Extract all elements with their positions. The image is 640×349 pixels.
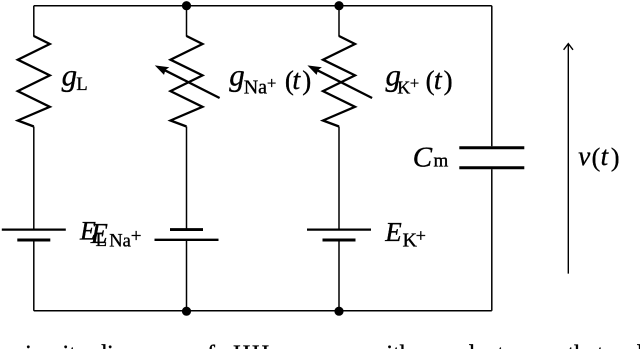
label gK+(t) [386,58,453,98]
wire left branch upper [33,6,35,37]
svg-text:HH: HH [233,342,271,349]
wire branch3 middle [338,127,340,230]
wire right branch lower [491,169,493,310]
svg-text:t: t [434,65,443,96]
arrow through gK [307,65,372,98]
svg-text:E: E [90,219,108,250]
node top junction branch3 [334,1,343,10]
wire branch3 upper [338,6,340,37]
svg-text:+: + [410,74,419,93]
svg-text:E: E [384,217,402,247]
svg-text:): ) [611,143,620,172]
svg-text:m: m [434,151,449,172]
capacitor Cm top plate [459,146,524,149]
wire right branch upper [491,6,493,147]
wire branch2 upper [186,6,188,37]
node bottom junction branch2 [182,307,191,316]
wire branch2 lower [186,240,188,311]
svg-text:): ) [444,65,453,95]
svg-text:g: g [229,58,245,93]
arrow v(t) voltage [564,44,573,274]
node top junction branch2 [182,1,191,10]
svg-text:that: that [568,342,604,349]
svg-text:Na: Na [109,232,131,252]
label EL [79,217,107,252]
svg-text:L: L [76,75,87,95]
label v(t) [578,141,619,172]
resistor gNa variable zigzag [171,36,203,127]
svg-text:conductances: conductances [428,342,557,349]
wire top horizontal [34,5,492,7]
svg-text:neuron: neuron [279,342,346,349]
battery ENa short plate (top) [170,228,203,231]
battery ENa long plate (bottom) [155,239,219,241]
label gL [62,58,88,96]
svg-text:(: ( [592,143,601,172]
svg-text:g: g [62,58,78,93]
svg-text:+: + [131,226,142,247]
svg-text:K: K [397,78,410,98]
node bottom junction branch3 [334,307,343,316]
battery EL short plate [17,239,50,242]
wire left branch middle [33,127,35,230]
svg-text:model: model [600,342,640,349]
label gNa+(t) [229,58,311,99]
wire branch2 middle [186,127,188,230]
resistor gK variable zigzag [323,36,355,127]
wire left branch lower [33,240,35,311]
svg-text:t: t [292,65,301,96]
svg-text:+: + [416,225,426,245]
label Cm [413,142,449,174]
wire bottom horizontal [34,310,492,312]
svg-text:C: C [413,142,433,174]
svg-text:t: t [601,141,610,171]
svg-text:diagram: diagram [95,342,174,349]
svg-text:): ) [302,65,311,95]
svg-text:circuit: circuit [15,342,77,349]
battery EK short plate [323,239,356,242]
label EK+ [384,217,426,251]
capacitor Cm bottom plate [459,166,524,169]
battery EK long plate [307,228,371,230]
wire branch3 lower [338,240,340,311]
arrow through gNa [155,65,220,98]
svg-text:+: + [267,74,276,93]
svg-text:with: with [369,342,412,349]
resistor gL [18,36,50,127]
battery EL long plate [2,228,66,230]
svg-text:v: v [578,141,590,171]
svg-text:of: of [195,342,215,349]
svg-text:Na: Na [244,77,267,99]
caption text (cropped at bottom edge) [15,342,640,349]
label ENa+ (overlapping) [90,219,142,252]
